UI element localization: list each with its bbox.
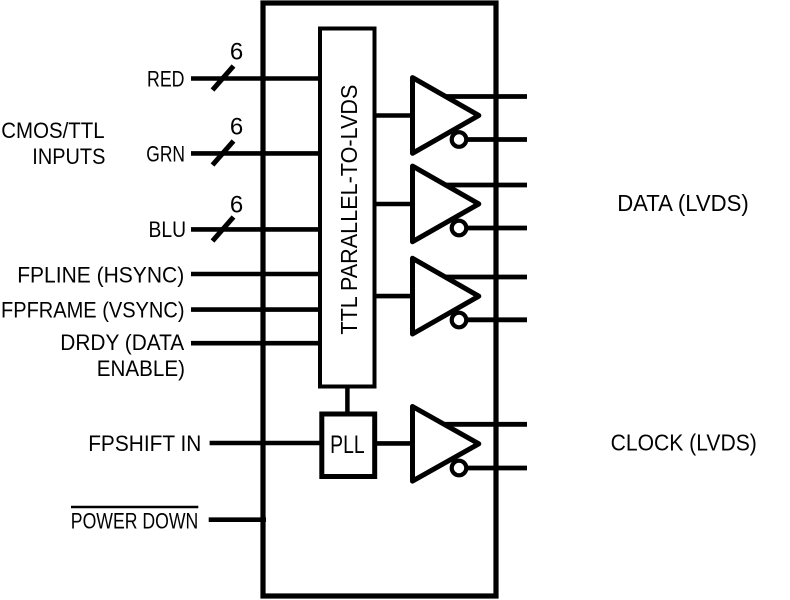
svg-text:GRN: GRN — [146, 142, 185, 167]
svg-text:ENABLE): ENABLE) — [97, 356, 185, 381]
svg-text:PLL: PLL — [330, 431, 365, 459]
svg-text:POWER DOWN: POWER DOWN — [71, 508, 199, 533]
svg-text:FPLINE (HSYNC): FPLINE (HSYNC) — [17, 262, 184, 287]
svg-text:BLU: BLU — [149, 217, 187, 242]
svg-text:RED: RED — [147, 67, 185, 92]
svg-text:CMOS/TTL: CMOS/TTL — [1, 118, 104, 143]
svg-text:TTL PARALLEL-TO-LVDS: TTL PARALLEL-TO-LVDS — [336, 85, 362, 335]
svg-text:DATA (LVDS): DATA (LVDS) — [617, 190, 749, 216]
svg-text:DRDY (DATA: DRDY (DATA — [60, 330, 184, 355]
svg-text:6: 6 — [230, 191, 243, 218]
svg-text:6: 6 — [230, 38, 243, 65]
svg-text:6: 6 — [230, 113, 243, 140]
svg-text:FPFRAME (VSYNC): FPFRAME (VSYNC) — [1, 297, 185, 322]
svg-text:INPUTS: INPUTS — [32, 144, 105, 169]
svg-text:FPSHIFT IN: FPSHIFT IN — [88, 431, 201, 456]
svg-text:CLOCK (LVDS): CLOCK (LVDS) — [611, 430, 757, 456]
